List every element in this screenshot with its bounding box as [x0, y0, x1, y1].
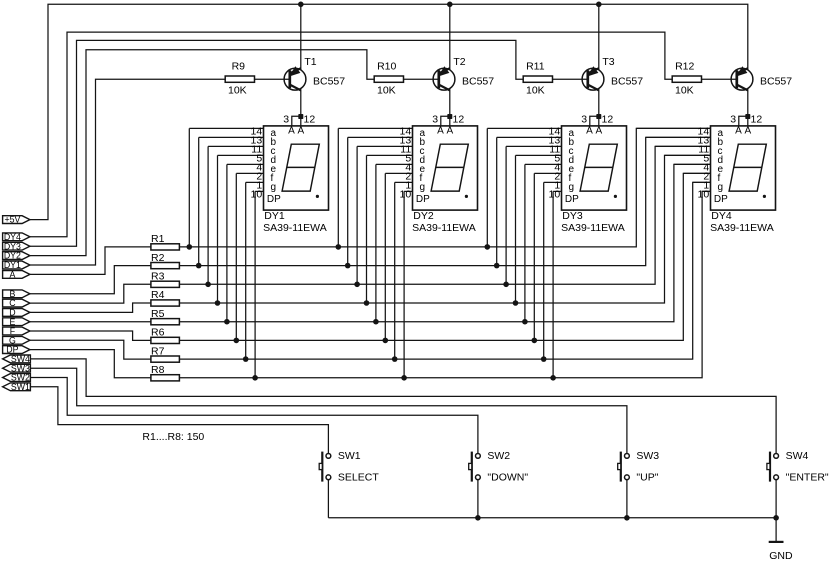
svg-text:A: A	[288, 126, 295, 137]
svg-text:A: A	[744, 126, 751, 137]
junction bus row 1 DY1	[187, 244, 193, 250]
wire base R10 to T2	[404, 78, 438, 80]
svg-text:R1....R8: 150: R1....R8: 150	[142, 431, 204, 443]
junction bus row 6 DY1	[234, 338, 240, 344]
svg-text:DP: DP	[267, 194, 281, 205]
svg-text:SA39-11EWA: SA39-11EWA	[710, 222, 774, 234]
svg-text:SA39-11EWA: SA39-11EWA	[561, 222, 625, 234]
pin wires DY1 pins 14,13,11,5,4,2,1,10	[189, 127, 263, 129]
pin wires DY4 pins 14,13,11,5,4,2,1,10	[636, 127, 710, 129]
svg-text:R11: R11	[526, 60, 545, 72]
junction bus row 7 DY1	[243, 356, 249, 362]
wire SW4 to switch SW4	[30, 359, 776, 453]
svg-text:R3: R3	[151, 271, 165, 283]
svg-text:SW1: SW1	[11, 382, 30, 392]
svg-text:A: A	[595, 126, 602, 137]
svg-text:DY4: DY4	[711, 210, 732, 222]
svg-text:SW3: SW3	[636, 450, 659, 462]
pin wires DY2 pins 14,13,11,5,4,2,1,10	[338, 127, 412, 129]
display DY1 SA39-11EWA	[189, 125, 328, 377]
svg-text:DY3: DY3	[562, 210, 583, 222]
svg-text:BC557: BC557	[313, 75, 345, 87]
junction top rail T1	[298, 2, 304, 8]
junction top rail T3	[596, 2, 602, 8]
wire A to R1	[30, 247, 151, 275]
svg-text:SA39-11EWA: SA39-11EWA	[263, 222, 327, 234]
svg-text:BC557: BC557	[760, 75, 792, 87]
svg-text:BC557: BC557	[611, 75, 643, 87]
junction bus row 4 DY3	[513, 300, 519, 306]
svg-text:10: 10	[251, 188, 263, 200]
junction bus row 8 DY2	[401, 375, 407, 381]
svg-text:g: g	[718, 182, 724, 193]
svg-text:DP: DP	[565, 194, 579, 205]
wire collector T1	[300, 89, 302, 126]
svg-text:GND: GND	[769, 550, 793, 561]
switch SW4	[767, 452, 779, 482]
resistor R12	[672, 76, 701, 82]
svg-text:10: 10	[549, 188, 561, 200]
svg-text:10: 10	[698, 188, 710, 200]
wire collector T4	[747, 89, 749, 126]
resistor R11	[523, 76, 552, 82]
wire ground rail	[328, 517, 776, 519]
display DY3 SA39-11EWA	[487, 125, 626, 377]
junction collector node DY2	[447, 114, 452, 119]
switch SW1	[319, 452, 331, 482]
connector flag DY1	[3, 261, 30, 269]
svg-text:"ENTER": "ENTER"	[786, 471, 829, 483]
seven-segment glyph DY3	[580, 144, 617, 191]
wire base R12 to T4	[702, 78, 736, 80]
resistor R2	[151, 263, 180, 269]
resistor R8	[151, 375, 180, 381]
wire collector T3	[598, 89, 600, 126]
wire segment bus row 6	[179, 173, 710, 340]
wire SW2 to switch SW2	[30, 378, 478, 454]
svg-text:12: 12	[304, 114, 316, 126]
seven-segment glyph DY2	[431, 144, 468, 191]
svg-text:SW2: SW2	[487, 450, 510, 462]
svg-text:R7: R7	[151, 345, 165, 357]
wire F to R6	[30, 331, 151, 340]
transistor T3	[582, 67, 604, 90]
connector flag +5V	[3, 216, 30, 224]
svg-text:A: A	[9, 270, 15, 280]
resistor R10	[374, 76, 403, 82]
pin wires DY3 pins 14,13,11,5,4,2,1,10	[487, 127, 561, 129]
switch SW2	[469, 452, 481, 482]
svg-text:A: A	[446, 126, 453, 137]
wire SW1 to ground rail	[327, 480, 329, 518]
wire base R9 to T1	[255, 78, 289, 80]
svg-text:R10: R10	[377, 60, 396, 72]
wire segment bus row 8	[179, 191, 710, 377]
svg-text:10K: 10K	[526, 85, 545, 97]
junction bus row 8 DY3	[550, 375, 556, 381]
svg-text:10K: 10K	[675, 85, 694, 97]
connector flag E	[3, 318, 30, 326]
svg-text:+5V: +5V	[4, 215, 20, 225]
junction collector node DY1	[298, 114, 303, 119]
transistor T2	[433, 67, 455, 90]
junction bus row 1 DY2	[336, 244, 342, 250]
ground	[775, 518, 777, 542]
svg-text:R1: R1	[151, 233, 165, 245]
wire B to R2	[30, 266, 151, 294]
wire emitter T3	[598, 4, 600, 69]
svg-text:BC557: BC557	[462, 75, 494, 87]
wire D to R4	[30, 303, 151, 312]
decimal point DY1	[316, 195, 319, 198]
svg-text:A: A	[735, 126, 742, 137]
junction bus row 2 DY1	[196, 263, 202, 269]
connector flag SW2	[3, 374, 31, 382]
svg-text:10: 10	[400, 188, 412, 200]
svg-text:R9: R9	[232, 60, 246, 72]
junction collector node DY3	[596, 114, 601, 119]
wire DY4 to R12	[30, 32, 674, 237]
svg-text:R2: R2	[151, 252, 165, 264]
resistor R7	[151, 356, 180, 362]
wire DY1 to R9	[30, 79, 225, 265]
connector flag B	[3, 290, 30, 298]
junction bus row 6 DY2	[383, 338, 389, 344]
connector flag F	[3, 327, 30, 335]
svg-text:DP: DP	[714, 194, 728, 205]
resistor R9	[225, 76, 254, 82]
resistor R5	[151, 319, 180, 325]
wire anode bracket pins 3/12 DY1	[292, 116, 301, 126]
resistor R1	[151, 244, 180, 250]
junction bus row 6 DY3	[532, 338, 538, 344]
svg-text:g: g	[569, 182, 575, 193]
wire segment bus row 7	[179, 182, 710, 359]
connector flag DP	[3, 346, 30, 354]
junction top rail T2	[447, 2, 453, 8]
wire G to R7	[30, 340, 151, 359]
svg-text:"DOWN": "DOWN"	[487, 471, 528, 483]
svg-text:3: 3	[581, 114, 587, 126]
wire C to R3	[30, 284, 151, 303]
svg-text:3: 3	[730, 114, 736, 126]
wire base R11 to T3	[553, 78, 587, 80]
decimal point DY4	[763, 195, 766, 198]
wire SW4 to ground rail	[775, 480, 777, 518]
wire DP to R8	[30, 350, 151, 378]
connector flag DY2	[3, 252, 30, 260]
connector flag SW3	[3, 364, 31, 372]
wire anode bracket pins 3/12 DY2	[441, 116, 450, 126]
decimal point DY2	[465, 195, 468, 198]
connector flag A	[3, 271, 30, 279]
svg-text:R4: R4	[151, 289, 165, 301]
svg-text:R12: R12	[675, 60, 694, 72]
connector flag D	[3, 309, 30, 317]
svg-text:T3: T3	[602, 56, 614, 68]
svg-text:A: A	[586, 126, 593, 137]
connector flag C	[3, 299, 30, 307]
svg-text:T1: T1	[304, 56, 316, 68]
decimal point DY3	[614, 195, 617, 198]
wire segment bus row 3	[179, 146, 710, 284]
wire anode bracket pins 3/12 DY3	[590, 116, 599, 126]
connector flag DY4	[3, 233, 30, 241]
seven-segment glyph DY4	[729, 144, 766, 191]
wire segment bus row 5	[179, 164, 710, 321]
wire emitter T2	[449, 4, 451, 69]
seven-segment glyph DY1	[282, 144, 319, 191]
junction bus row 3 DY3	[503, 282, 509, 288]
wire segment bus row 2	[179, 137, 710, 265]
junction bus row 5 DY3	[522, 319, 528, 325]
connector flag SW1	[3, 383, 31, 391]
svg-text:12: 12	[602, 114, 614, 126]
resistor R6	[151, 337, 180, 343]
svg-text:R6: R6	[151, 327, 165, 339]
svg-text:3: 3	[432, 114, 438, 126]
junction bus row 3 DY1	[205, 282, 211, 288]
svg-text:A: A	[297, 126, 304, 137]
svg-text:12: 12	[453, 114, 465, 126]
svg-text:12: 12	[751, 114, 763, 126]
svg-text:g: g	[271, 182, 277, 193]
wire SW1 to switch SW1	[30, 387, 328, 453]
junction collector node DY4	[745, 114, 750, 119]
junction bus row 2 DY3	[494, 263, 500, 269]
display DY2 SA39-11EWA	[338, 125, 477, 377]
connector flag G	[3, 336, 30, 344]
transistor T4	[731, 67, 753, 90]
junction bus row 4 DY1	[215, 300, 221, 306]
svg-text:10K: 10K	[377, 85, 396, 97]
junction bus row 3 DY2	[354, 282, 360, 288]
junction bus row 8 DY1	[252, 375, 258, 381]
junction bus row 4 DY2	[364, 300, 370, 306]
junction bus row 5 DY1	[224, 319, 230, 325]
svg-text:R5: R5	[151, 308, 165, 320]
svg-text:DP: DP	[416, 194, 430, 205]
wire SW3 to ground rail	[626, 480, 628, 518]
junction bus row 7 DY2	[392, 356, 398, 362]
junction ground rail SW3	[624, 515, 630, 521]
wire collector T2	[449, 89, 451, 126]
svg-text:DY2: DY2	[413, 210, 434, 222]
wire SW2 to ground rail	[477, 480, 479, 518]
junction bus row 7 DY3	[541, 356, 547, 362]
resistor R3	[151, 281, 180, 287]
wire DY3 to R11	[30, 40, 525, 246]
junction bus row 5 DY2	[373, 319, 379, 325]
svg-text:10K: 10K	[228, 85, 247, 97]
wire SW3 to switch SW3	[30, 368, 627, 453]
svg-text:R8: R8	[151, 364, 165, 376]
junction ground rail SW4	[773, 515, 779, 521]
svg-text:A: A	[437, 126, 444, 137]
wire DY2 to R10	[30, 50, 376, 256]
svg-text:T2: T2	[453, 56, 465, 68]
svg-text:"UP": "UP"	[636, 471, 658, 483]
wire segment bus row 4	[179, 155, 710, 303]
svg-text:SELECT: SELECT	[338, 471, 379, 483]
connector flag SW4	[3, 355, 31, 363]
junction bus row 2 DY2	[345, 263, 351, 269]
svg-text:SW4: SW4	[786, 450, 809, 462]
display DY4 SA39-11EWA	[636, 125, 775, 210]
transistor T1	[284, 67, 306, 90]
wire anode bracket pins 3/12 DY4	[739, 116, 748, 126]
wire +5V rail (top)	[30, 4, 748, 219]
wire emitter T1	[300, 4, 302, 69]
switch SW3	[618, 452, 630, 482]
wire E to R5	[30, 321, 151, 323]
connector flag DY3	[3, 242, 30, 250]
resistor R4	[151, 300, 180, 306]
svg-text:g: g	[420, 182, 426, 193]
wire segment bus row 1	[179, 128, 710, 247]
junction bus row 1 DY3	[485, 244, 491, 250]
svg-text:3: 3	[283, 114, 289, 126]
svg-text:SA39-11EWA: SA39-11EWA	[412, 222, 476, 234]
svg-text:DY1: DY1	[264, 210, 285, 222]
svg-text:SW1: SW1	[338, 450, 361, 462]
junction ground rail SW2	[475, 515, 481, 521]
